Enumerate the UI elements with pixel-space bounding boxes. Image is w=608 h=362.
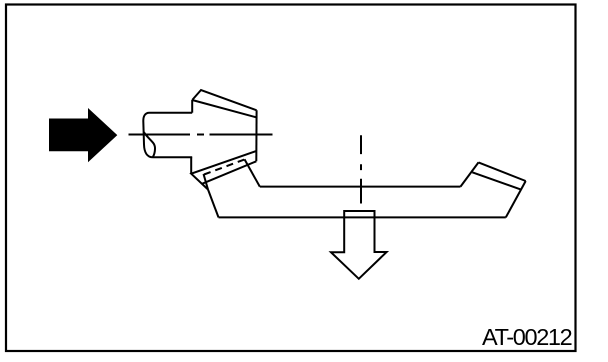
horizontal centerline (dash-dot) bbox=[129, 134, 273, 136]
step vertical (lower) bbox=[190, 157, 192, 173]
arm bottom edge bbox=[219, 216, 506, 218]
hidden edge (dashed) inside bottom band bbox=[204, 160, 245, 175]
arm right end rise bbox=[461, 162, 479, 186]
cone top chamfer band bbox=[192, 90, 257, 118]
step vertical (upper) bbox=[191, 100, 193, 113]
shaft (cylinder outline) bbox=[143, 113, 192, 158]
arm left edge bbox=[208, 190, 219, 218]
vertical centerline (dash-dot) bbox=[360, 135, 362, 203]
direction arrow (solid black, pointing right) bbox=[49, 108, 117, 162]
arm right edge bbox=[506, 181, 526, 217]
arm end chamfer band bbox=[472, 162, 525, 189]
hollow down arrow bbox=[331, 211, 387, 279]
cone bottom chamfer band bbox=[191, 151, 256, 189]
label AT-00212 bbox=[482, 324, 571, 351]
arm top edge bbox=[260, 186, 461, 188]
cone right face bbox=[255, 110, 257, 161]
shaft end-face arc bbox=[144, 132, 155, 157]
arm near-edge from cone to top edge bbox=[245, 159, 260, 186]
arm inner left edge bbox=[204, 174, 209, 190]
